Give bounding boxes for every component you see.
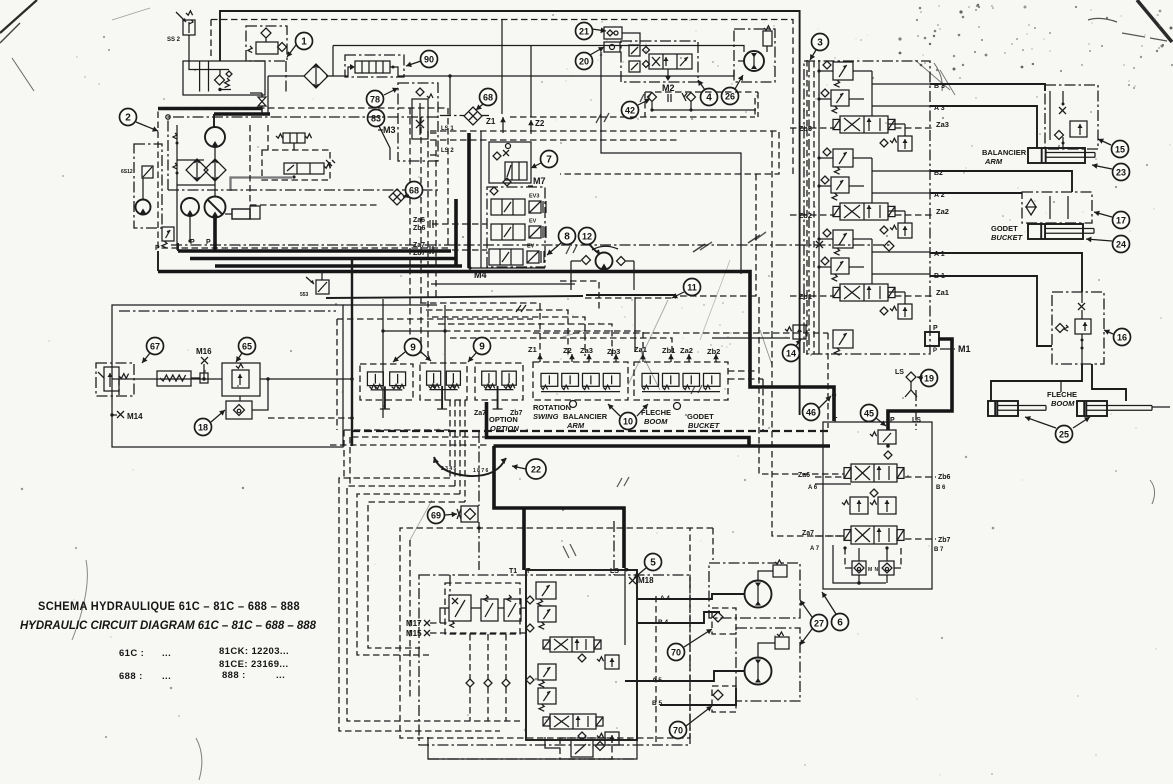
leader 4: [698, 80, 705, 90]
junction: [477, 526, 480, 529]
aux check bottom 1: [852, 548, 866, 575]
svg-text:BALANCIER: BALANCIER: [563, 412, 608, 421]
wire top dashed border: [211, 20, 793, 175]
svg-text:5: 5: [650, 557, 656, 568]
callout 12: [579, 228, 596, 245]
svg-text:Za1: Za1: [936, 288, 949, 297]
marker: [682, 93, 687, 101]
filter: [186, 159, 208, 181]
callout 16: [1114, 329, 1131, 346]
boom cylinder left: [988, 401, 1046, 416]
svg-text:GODET: GODET: [687, 412, 714, 421]
pilot line 18 out: [268, 417, 352, 419]
svg-text:1: 1: [301, 36, 307, 47]
svg-text:BALANCIER: BALANCIER: [982, 148, 1027, 157]
pilot step Z1: [420, 303, 540, 356]
box1 right dashdot: [285, 61, 287, 93]
travel comp 2: [597, 732, 619, 745]
svg-text:8: 8: [564, 231, 570, 242]
check: [526, 676, 534, 684]
leader 26: [735, 75, 743, 89]
wire A6: [815, 483, 851, 485]
leader 27a: [800, 600, 812, 617]
arrow Z2: [528, 120, 534, 134]
callout 8: [559, 228, 576, 245]
aux bottom dashes: [845, 548, 901, 568]
leader 27b: [800, 629, 812, 645]
arrow Z1: [500, 117, 506, 133]
leader: [393, 352, 405, 362]
callout 42: [622, 102, 639, 119]
callout 3: [812, 34, 829, 51]
travel relief 1: [536, 582, 556, 606]
svg-text:90: 90: [424, 54, 434, 64]
pilot line: [815, 535, 844, 537]
wire A3 to arm: [930, 106, 1037, 148]
leader: [637, 404, 648, 416]
pilot dashed: [118, 379, 120, 395]
leader 65: [236, 353, 242, 362]
travel bottom dashdot: [428, 737, 637, 759]
relief: [629, 61, 640, 72]
pilot check: [648, 93, 657, 102]
check: [870, 489, 878, 497]
marker: [430, 246, 433, 254]
aux check bottom 2: [879, 548, 894, 575]
bank section arm (B3/A3/Za3/Zb3): [790, 61, 949, 151]
callout 2: [120, 109, 137, 126]
svg-text:Zb6: Zb6: [413, 225, 426, 232]
pump group dash bottom: [250, 204, 380, 206]
svg-text:P: P: [933, 348, 937, 354]
svg-text:Z2: Z2: [563, 346, 572, 355]
pump P1: [205, 127, 225, 147]
junction T: [832, 393, 836, 397]
pilot row top dashed: [533, 332, 828, 334]
valve M2 box: [621, 41, 698, 82]
arrow: [586, 354, 592, 362]
callout 26: [722, 88, 739, 105]
svg-text:Zb2: Zb2: [707, 347, 720, 356]
svg-text:M4: M4: [474, 270, 487, 280]
svg-text:25: 25: [1059, 429, 1069, 439]
suction thick 1: [158, 107, 262, 111]
regulator dashed drop: [293, 143, 295, 150]
pilot row left dashed: [336, 319, 338, 430]
svg-text:Zb7: Zb7: [938, 537, 951, 544]
svg-text:B 6: B 6: [936, 485, 946, 491]
callout 46: [803, 404, 820, 421]
svg-text:HYDRAULIC CIRCUIT DIAGRAM 61C: HYDRAULIC CIRCUIT DIAGRAM 61C – 81C – 68…: [20, 618, 316, 632]
travel outer dashed box: [400, 528, 713, 738]
svg-text:ARM: ARM: [566, 421, 585, 430]
pilot line Za7: [432, 249, 487, 251]
wire: [219, 70, 221, 76]
wire Z2 riser: [530, 46, 532, 118]
pilot block boom: [634, 362, 728, 400]
wire A4: [637, 594, 744, 599]
junction: [350, 416, 354, 420]
pilot solid v: [634, 297, 636, 352]
wire: [213, 218, 217, 252]
bank rail 2: [806, 60, 808, 354]
comp valve 14: [785, 325, 806, 339]
servo line double: [230, 177, 292, 190]
svg-text:24: 24: [1116, 239, 1126, 249]
check valve: [278, 43, 287, 52]
junction: [213, 239, 216, 242]
svg-text:BUCKET: BUCKET: [688, 421, 721, 430]
check: [490, 187, 498, 195]
pilot step Za1: [444, 331, 643, 356]
leader 24: [1086, 237, 1112, 243]
callout 18: [195, 419, 212, 436]
wire B3 to arm: [930, 84, 1045, 91]
block frame: [480, 131, 482, 268]
travel right rail: [655, 596, 657, 742]
valve 21 body: [604, 27, 622, 39]
svg-text:553: 553: [300, 292, 309, 298]
pilot block option: [475, 363, 523, 409]
svg-text:68: 68: [409, 185, 419, 195]
leader 25b: [1073, 417, 1090, 428]
bucket internals: [1026, 196, 1068, 219]
leader 8: [547, 243, 561, 255]
svg-text:Za3: Za3: [580, 346, 593, 355]
marker: [430, 220, 433, 228]
callout 68b: [406, 182, 423, 199]
bank P port box: [925, 332, 939, 346]
callout 24: [1113, 236, 1130, 253]
svg-text:6: 6: [837, 617, 843, 628]
svg-text:70: 70: [671, 647, 681, 657]
wire B5: [660, 688, 736, 705]
wire supply top: [333, 46, 744, 53]
svg-text:81CK: 12203...: 81CK: 12203...: [219, 646, 289, 657]
wire A1 to boom: [930, 253, 1082, 292]
check: [526, 596, 534, 604]
swing motor: [738, 51, 764, 71]
swirl arrow 22: [434, 457, 506, 476]
wire: [177, 159, 204, 161]
svg-text:69: 69: [431, 510, 441, 520]
callout 22: [526, 459, 546, 479]
staircase 2: [347, 486, 520, 721]
break marks: [516, 305, 526, 312]
check 18: [234, 405, 245, 416]
return block divider2: [208, 61, 210, 92]
charge valve block box: [246, 26, 287, 61]
callout 9a: [405, 339, 422, 356]
svg-text:ARM: ARM: [984, 157, 1003, 166]
check: [617, 257, 626, 266]
leader 1: [287, 45, 296, 57]
travel main box: [526, 570, 637, 740]
pilot drop long B: [772, 131, 844, 536]
thick drop: [494, 446, 624, 568]
bank section bucket (B2/A2/Za2/Zb2): [790, 148, 949, 238]
bank left rail: [808, 61, 810, 354]
travel comp 1: [597, 655, 619, 669]
callout 5: [645, 554, 662, 571]
svg-text:2: 2: [125, 112, 131, 123]
bucket block box 17: [1022, 192, 1092, 223]
svg-text:Zb6: Zb6: [938, 474, 951, 481]
svg-text:17: 17: [1116, 215, 1126, 225]
junction: [188, 239, 191, 242]
leader: [468, 353, 476, 362]
wire filter drop: [267, 76, 269, 114]
wire SS2 to charge block: [189, 35, 229, 70]
leader 20: [590, 47, 604, 55]
valve 7 box: [489, 142, 531, 183]
arrow: [713, 354, 719, 362]
pilot drops4: [464, 400, 466, 502]
label M1: [940, 344, 971, 354]
svg-text:18: 18: [198, 422, 208, 432]
leader 22: [512, 464, 526, 470]
swing motor box: [734, 29, 775, 82]
svg-text:67: 67: [150, 341, 160, 351]
reducer dashed box: [445, 583, 520, 634]
thick line mid: [351, 258, 353, 446]
svg-text:4: 4: [706, 92, 712, 103]
travel motor 2 box: [736, 628, 800, 701]
pressure line main: [158, 272, 834, 422]
pilot line dashed: [430, 139, 680, 141]
svg-text:N: N: [875, 567, 879, 573]
leader 67: [142, 353, 150, 363]
svg-text:Zb3: Zb3: [607, 347, 620, 356]
pressure line P to bank: [888, 339, 952, 430]
wire: [766, 46, 768, 52]
bank rail 4: [813, 61, 815, 354]
wire top supply line: [220, 11, 800, 415]
pilot P line: [171, 244, 893, 246]
svg-text:Za7: Za7: [802, 530, 814, 537]
wire reducers: [440, 608, 449, 623]
wire: [758, 571, 773, 580]
box 67 outer: [112, 305, 343, 447]
reducer drop 2: [487, 634, 489, 679]
wire: [321, 271, 323, 280]
wire cooler loop: [571, 260, 581, 262]
pilot line dashed: [754, 98, 756, 117]
callout 65: [239, 338, 256, 355]
LS dashdot: [613, 521, 615, 575]
wire 18 out: [252, 379, 268, 410]
wire purge: [545, 737, 560, 748]
leader 70b: [686, 706, 712, 726]
wire: [157, 251, 159, 271]
ev valve EV: [491, 219, 546, 241]
callout 7: [541, 151, 558, 168]
wire: [189, 216, 191, 240]
callout 90: [421, 51, 438, 68]
label M15: [406, 629, 430, 638]
callout 1: [296, 33, 313, 50]
svg-text:FLECHE: FLECHE: [641, 408, 671, 417]
valve SS2: [167, 11, 195, 43]
bank section boom (A1/B1/Za1/Zb1): [790, 229, 949, 319]
wire: [250, 92, 262, 94]
junction: [266, 377, 269, 380]
valve bank 3 box: [804, 61, 930, 354]
throttle: [258, 97, 266, 106]
pilot row top dashed 2: [337, 318, 533, 320]
pilot bar: [326, 296, 583, 298]
arm block box 15: [1045, 85, 1098, 149]
pilot ladder VB: [444, 305, 446, 400]
aux valve Za7: [844, 526, 904, 544]
svg-text:Zb7: Zb7: [413, 250, 426, 257]
check: [484, 679, 492, 687]
svg-text:GODET: GODET: [991, 224, 1018, 233]
wire valve90 out: [396, 67, 734, 76]
aux bottom frame: [833, 545, 889, 585]
leader 23: [1092, 163, 1112, 169]
pilot line: [905, 538, 936, 540]
svg-text:7: 7: [546, 154, 552, 165]
wire: [758, 643, 775, 657]
wire M17: [430, 622, 449, 624]
pilot connector 1: [728, 370, 757, 372]
valve 65: [232, 364, 249, 388]
callout 17: [1113, 212, 1130, 229]
staircase 1: [339, 478, 500, 731]
check 18 box: [226, 401, 252, 419]
travel relief 3: [538, 664, 556, 687]
valve M2 spool: [649, 54, 692, 69]
svg-text:M17: M17: [406, 619, 422, 628]
svg-text:...: ...: [162, 648, 171, 659]
valve 67: [98, 367, 129, 391]
svg-text:M3: M3: [383, 125, 396, 135]
wire B4: [637, 612, 720, 623]
valve 7 internals: [493, 144, 527, 181]
pilot step Za3: [432, 317, 585, 356]
wire reducer join2: [498, 607, 504, 609]
svg-text:Za7: Za7: [474, 410, 486, 417]
svg-text:Zb1: Zb1: [662, 346, 675, 355]
filter F1: [304, 64, 328, 88]
travel bottom line: [428, 758, 637, 760]
junction: [443, 329, 446, 332]
boom rod ext: [1152, 406, 1170, 408]
leader 83: [379, 126, 390, 160]
svg-text:BOOM: BOOM: [644, 417, 668, 426]
label M17: [406, 619, 430, 628]
thick riser: [454, 199, 458, 266]
pilot bundle v3: [435, 140, 437, 300]
wire filter up: [332, 46, 334, 77]
leader 46: [818, 396, 831, 409]
svg-text:BUCKET: BUCKET: [991, 233, 1024, 242]
dashed return box: [560, 281, 599, 310]
svg-text:9: 9: [479, 341, 485, 352]
svg-text:P: P: [155, 245, 160, 252]
marker: [668, 94, 671, 102]
check: [643, 61, 650, 68]
wire B2 to bucket: [930, 171, 1072, 192]
regulator dashed box: [262, 150, 330, 180]
pilot line dashed: [510, 116, 755, 118]
svg-text:SWING: SWING: [533, 412, 559, 421]
pilot step Z2: [426, 310, 568, 356]
wire box67 ext: [343, 304, 437, 306]
pump group dashdot mid: [168, 189, 440, 191]
wire cooler frame: [633, 261, 635, 290]
svg-text:Za2: Za2: [680, 346, 693, 355]
svg-text:Za1: Za1: [634, 345, 647, 354]
junction: [886, 444, 890, 448]
pilot bundle v4: [409, 108, 411, 356]
svg-text:P: P: [933, 325, 938, 332]
wire: [142, 178, 144, 199]
svg-text:12: 12: [582, 231, 592, 241]
travel motor 1: [739, 581, 772, 608]
aux valve Za6: [844, 464, 904, 482]
leader 2: [136, 122, 158, 132]
pressure line P3: [215, 264, 462, 268]
wire main: [112, 378, 222, 380]
return dashed cont: [680, 296, 844, 474]
wire reducer out: [521, 607, 526, 609]
svg-text:11: 11: [687, 282, 697, 292]
junction: [350, 377, 354, 381]
wire 68 line: [440, 115, 464, 117]
boom cylinder right: [1077, 401, 1152, 416]
svg-text:Za6: Za6: [413, 217, 425, 224]
wire 67 to riser: [343, 378, 352, 380]
LS drop: [915, 390, 917, 430]
wire: [176, 125, 178, 250]
return block: [183, 61, 265, 95]
reducer 2: [481, 595, 498, 621]
arrow: [613, 354, 619, 362]
callout 70a: [668, 644, 685, 661]
callout 45: [861, 405, 878, 422]
T1 drop: [449, 575, 451, 596]
spring box: [157, 371, 208, 386]
wire boom cyl left: [991, 364, 1082, 401]
travel relief 4: [538, 688, 556, 711]
valve 6S12: [121, 166, 153, 178]
wire B1 to boom: [930, 276, 1052, 346]
label LS1: [430, 126, 454, 133]
callout 10: [620, 413, 637, 430]
arrow: [569, 354, 575, 362]
leader 16: [1104, 330, 1113, 335]
svg-text:42: 42: [625, 105, 635, 115]
svg-text:EV3: EV3: [529, 194, 539, 200]
check: [578, 654, 586, 662]
callout 83: [368, 110, 385, 127]
label M14: [110, 411, 143, 421]
callout 21: [576, 23, 593, 40]
callout 6: [832, 614, 849, 631]
svg-text:M7: M7: [533, 176, 546, 186]
svg-text:9: 9: [410, 342, 416, 353]
leader 7: [531, 163, 541, 168]
check: [578, 732, 586, 740]
staircase upper h1: [352, 436, 486, 438]
servo line double2: [231, 178, 292, 191]
pump group outer dashed box: [158, 108, 448, 248]
travel relief 2: [538, 606, 556, 629]
svg-text:65: 65: [242, 341, 252, 351]
svg-text:T1: T1: [509, 568, 517, 575]
